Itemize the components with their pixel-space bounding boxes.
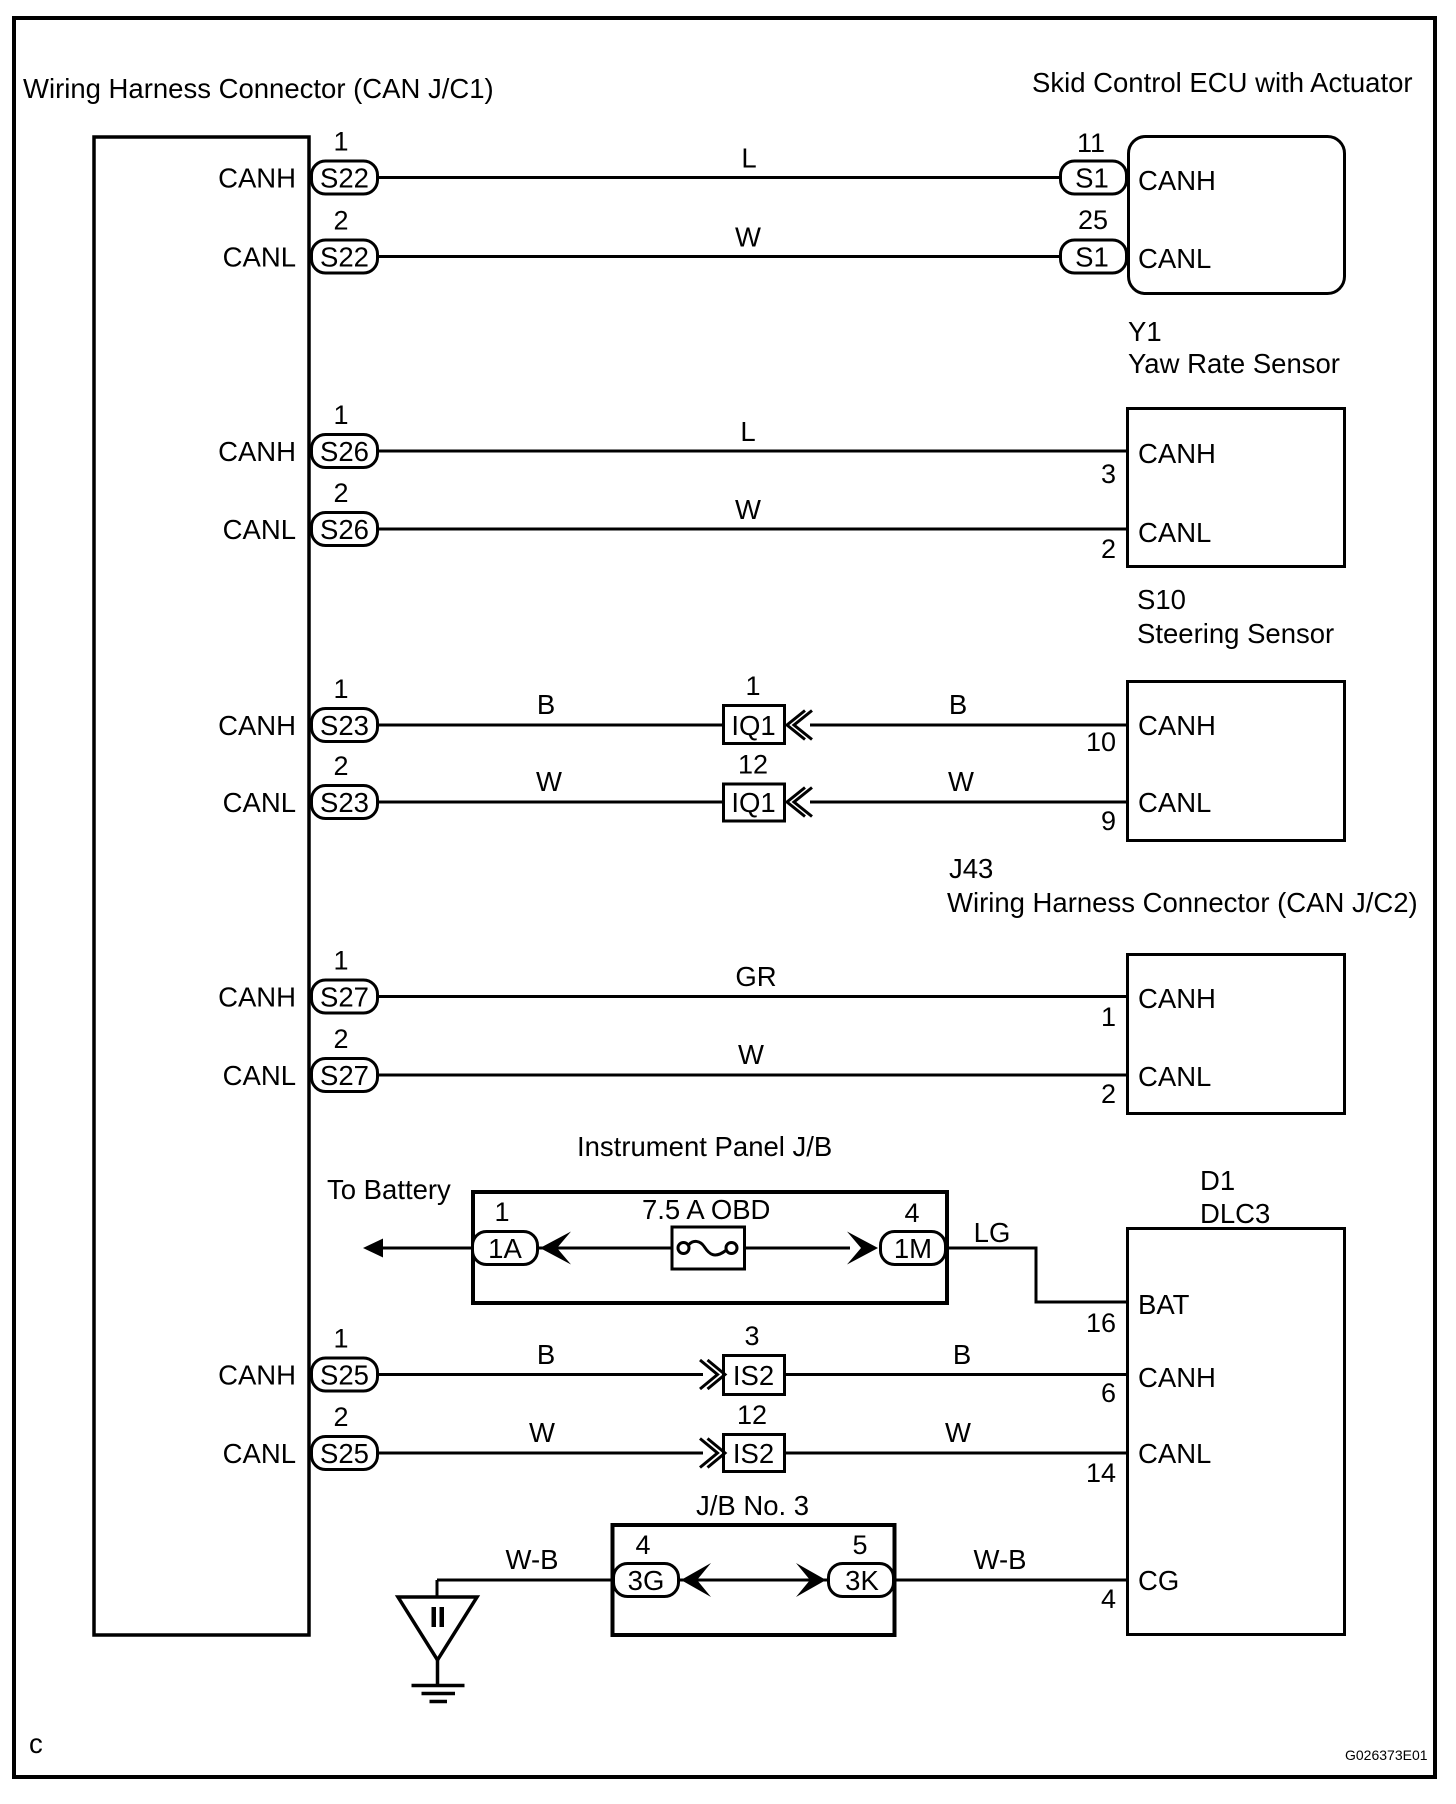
wire S22-1 to S1-11 (L) [378, 176, 1061, 179]
instrument panel J/B box [473, 1192, 947, 1303]
connector oval S27 pin 1 [218, 946, 377, 1014]
svg-text:S10: S10 [1137, 584, 1186, 615]
svg-text:1: 1 [333, 946, 348, 976]
svg-text:L: L [740, 416, 755, 447]
svg-text:1: 1 [333, 127, 348, 157]
svg-text:LG: LG [974, 1217, 1011, 1248]
svg-text:2: 2 [333, 751, 348, 781]
svg-text:W: W [536, 766, 562, 797]
svg-text:Wiring Harness Connector (CAN: Wiring Harness Connector (CAN J/C1) [23, 73, 494, 104]
svg-text:16: 16 [1086, 1308, 1116, 1338]
svg-text:CANL: CANL [1138, 243, 1211, 274]
junction connector IQ1 pin 1 [724, 671, 785, 744]
svg-text:IQ1: IQ1 [731, 787, 775, 818]
wire S25-2 to IS2 (W) [378, 1452, 703, 1455]
svg-text:B: B [537, 1339, 555, 1370]
DLC3 box [1086, 1229, 1345, 1635]
svg-text:Yaw Rate Sensor: Yaw Rate Sensor [1128, 348, 1340, 379]
ground symbol II [398, 1580, 477, 1702]
wire S27-2 to CAN J/C2 pin 2 (W) [378, 1074, 1127, 1077]
junction connector IS2 pin 3 [724, 1321, 785, 1395]
svg-text:CANH: CANH [1138, 710, 1216, 741]
svg-text:G026373E01: G026373E01 [1345, 1747, 1428, 1763]
svg-text:CANL: CANL [223, 1438, 296, 1469]
wire S26-1 to steering sensor pin 3 (L) [378, 450, 1127, 453]
svg-text:S23: S23 [320, 710, 369, 741]
svg-text:S26: S26 [320, 436, 369, 467]
svg-text:10: 10 [1086, 727, 1116, 757]
svg-text:B: B [953, 1339, 971, 1370]
svg-text:Instrument Panel J/B: Instrument Panel J/B [577, 1131, 832, 1162]
svg-text:2: 2 [333, 1402, 348, 1432]
svg-text:S25: S25 [320, 1438, 369, 1469]
svg-text:S23: S23 [320, 787, 369, 818]
label Y1 Yaw Rate Sensor [1128, 316, 1340, 379]
svg-text:2: 2 [333, 478, 348, 508]
svg-text:B: B [949, 689, 967, 720]
svg-text:CG: CG [1138, 1565, 1179, 1596]
svg-text:CANH: CANH [218, 1360, 296, 1391]
chevron arrows IS2 pin 12 [700, 1439, 725, 1468]
svg-text:CANL: CANL [223, 242, 296, 273]
arrowhead at 1A (pointing left) [540, 1232, 571, 1265]
svg-text:B: B [537, 689, 555, 720]
svg-text:3: 3 [744, 1321, 759, 1351]
connector oval 3G pin 4 [614, 1530, 679, 1597]
svg-text:1A: 1A [488, 1233, 522, 1264]
connector oval S26 pin 1 [218, 400, 377, 468]
connector oval S25 pin 1 [218, 1324, 377, 1392]
wire IQ1 to J43 pin 10 (B) [810, 724, 1127, 727]
svg-text:3K: 3K [845, 1565, 879, 1596]
arrowhead at 3K (pointing right) [796, 1563, 826, 1597]
svg-text:Steering Sensor: Steering Sensor [1137, 618, 1334, 649]
fuse 7.5 A OBD [642, 1194, 770, 1269]
wire S22-2 to S1-25 (W) [378, 255, 1061, 258]
svg-text:Wiring Harness Connector (CAN: Wiring Harness Connector (CAN J/C2) [947, 887, 1418, 918]
svg-text:1M: 1M [894, 1233, 932, 1264]
connector oval S22 pin 2 [223, 206, 378, 274]
wire S27-1 to CAN J/C2 pin 1 (GR) [378, 995, 1127, 998]
svg-text:CANL: CANL [1138, 787, 1211, 818]
wire 3G to 3K [678, 1579, 828, 1582]
junction block CAN J/C1 [94, 137, 309, 1635]
wire IQ1 to J43 pin 9 (W) [810, 801, 1127, 804]
svg-text:1: 1 [333, 1324, 348, 1354]
svg-text:IS2: IS2 [733, 1360, 774, 1391]
svg-text:CANL: CANL [223, 787, 296, 818]
connector oval S23 pin 2 [223, 751, 378, 819]
svg-text:7.5 A OBD: 7.5 A OBD [642, 1194, 770, 1225]
wire 1M to DLC3 BAT pin 16 [946, 1248, 1127, 1302]
svg-text:CANL: CANL [1138, 1061, 1211, 1092]
wire IS2 to DLC3 pin 6 (B) [784, 1373, 1127, 1376]
svg-text:W: W [738, 1039, 764, 1070]
svg-text:S1: S1 [1075, 163, 1109, 194]
wire 1A to fuse [538, 1247, 678, 1250]
svg-text:5: 5 [852, 1530, 867, 1560]
connector oval S1 pin 25 [1061, 205, 1127, 273]
chevron arrows IS2 pin 3 [700, 1360, 725, 1389]
svg-text:9: 9 [1101, 806, 1116, 836]
svg-text:CANH: CANH [218, 436, 296, 467]
svg-text:2: 2 [333, 1024, 348, 1054]
wire S26-2 to steering sensor pin 2 (W) [378, 528, 1127, 531]
svg-text:4: 4 [904, 1198, 919, 1228]
wire S23-2 to IQ1 (W) [378, 801, 723, 804]
wire fuse to 1M [736, 1247, 850, 1250]
svg-text:L: L [741, 143, 756, 174]
svg-text:1: 1 [333, 400, 348, 430]
svg-text:6: 6 [1101, 1378, 1116, 1408]
skid control ECU box [1129, 137, 1345, 294]
svg-text:4: 4 [1101, 1584, 1116, 1614]
svg-text:D1: D1 [1200, 1165, 1235, 1196]
J43 box [1086, 682, 1345, 841]
svg-text:J43: J43 [949, 853, 993, 884]
svg-text:W: W [945, 1417, 971, 1448]
connector oval S1 pin 11 [1061, 128, 1127, 194]
svg-text:S22: S22 [320, 242, 369, 273]
svg-text:CANH: CANH [1138, 983, 1216, 1014]
svg-text:4: 4 [635, 1530, 650, 1560]
svg-text:3: 3 [1101, 459, 1116, 489]
svg-text:CANH: CANH [1138, 165, 1216, 196]
svg-text:CANH: CANH [218, 710, 296, 741]
svg-text:BAT: BAT [1138, 1289, 1190, 1320]
svg-text:1: 1 [745, 671, 760, 701]
wire S23-1 to IQ1 (B) [378, 724, 723, 727]
svg-text:25: 25 [1078, 205, 1108, 235]
arrowhead to battery [363, 1239, 383, 1258]
svg-text:DLC3: DLC3 [1200, 1198, 1270, 1229]
connector oval 1A pin 1 [473, 1197, 538, 1265]
svg-text:Skid Control ECU with Actuator: Skid Control ECU with Actuator [1032, 67, 1413, 98]
svg-text:CANL: CANL [1138, 1438, 1211, 1469]
svg-text:W-B: W-B [506, 1544, 559, 1575]
svg-text:IS2: IS2 [733, 1438, 774, 1469]
svg-text:12: 12 [737, 1400, 767, 1430]
svg-text:Y1: Y1 [1128, 316, 1162, 347]
svg-text:W-B: W-B [974, 1544, 1027, 1575]
svg-text:W: W [735, 222, 761, 253]
chevron arrows IQ1 pin 1 [787, 711, 812, 740]
svg-text:IQ1: IQ1 [731, 710, 775, 741]
svg-text:2: 2 [1101, 1079, 1116, 1109]
svg-text:J/B No. 3: J/B No. 3 [696, 1490, 809, 1521]
svg-text:CANL: CANL [223, 1060, 296, 1091]
wire ground to 3G (W-B) [437, 1579, 613, 1582]
junction connector IQ1 pin 12 [724, 750, 785, 822]
svg-text:CANL: CANL [223, 514, 296, 545]
svg-text:14: 14 [1086, 1458, 1116, 1488]
connector oval S25 pin 2 [223, 1402, 378, 1470]
svg-text:To Battery: To Battery [327, 1174, 451, 1205]
label J43 Wiring Harness Connector (CAN J/C2) [947, 853, 1418, 918]
J/B No.3 box [613, 1525, 895, 1635]
connector oval S26 pin 2 [223, 478, 378, 546]
wire S25-1 to IS2 (B) [378, 1373, 703, 1376]
wire IS2 to DLC3 pin 14 (W) [784, 1452, 1127, 1455]
svg-text:S27: S27 [320, 1060, 369, 1091]
arrowhead at 3G (pointing left) [681, 1563, 711, 1597]
svg-text:CANL: CANL [1138, 517, 1211, 548]
svg-text:CANH: CANH [1138, 1362, 1216, 1393]
chevron arrows IQ1 pin 12 [787, 788, 812, 817]
svg-text:1: 1 [494, 1197, 509, 1227]
svg-text:CANH: CANH [218, 163, 296, 194]
connector oval 1M pin 4 [881, 1198, 946, 1265]
svg-text:W: W [948, 766, 974, 797]
arrowhead at 1M (pointing right) [847, 1232, 878, 1265]
svg-text:S1: S1 [1075, 242, 1109, 273]
svg-text:S26: S26 [320, 514, 369, 545]
connector oval 3K pin 5 [829, 1530, 894, 1597]
svg-text:3G: 3G [628, 1565, 665, 1596]
svg-text:c: c [29, 1728, 43, 1759]
connector oval S22 pin 1 [218, 127, 377, 195]
svg-text:CANH: CANH [1138, 438, 1216, 469]
svg-text:S25: S25 [320, 1360, 369, 1391]
svg-text:1: 1 [1101, 1002, 1116, 1032]
wire to battery [366, 1247, 473, 1250]
label S10 Steering Sensor [1137, 584, 1334, 649]
svg-text:GR: GR [735, 961, 776, 992]
svg-text:12: 12 [738, 750, 768, 780]
svg-text:S22: S22 [320, 163, 369, 194]
connector oval S27 pin 2 [223, 1024, 378, 1092]
svg-text:CANH: CANH [218, 982, 296, 1013]
connector oval S23 pin 1 [218, 674, 377, 742]
steering sensor box S10 [1101, 409, 1345, 567]
CAN J/C2 box [1101, 955, 1345, 1114]
svg-text:1: 1 [333, 674, 348, 704]
svg-text:2: 2 [1101, 534, 1116, 564]
svg-text:W: W [529, 1417, 555, 1448]
svg-text:11: 11 [1077, 128, 1105, 158]
svg-text:2: 2 [333, 206, 348, 236]
wire 3K to DLC3 CG pin 4 (W-B) [894, 1579, 1127, 1582]
svg-text:S27: S27 [320, 982, 369, 1013]
junction connector IS2 pin 12 [724, 1400, 785, 1472]
svg-text:W: W [735, 494, 761, 525]
label D1 DLC3 [1200, 1165, 1270, 1229]
